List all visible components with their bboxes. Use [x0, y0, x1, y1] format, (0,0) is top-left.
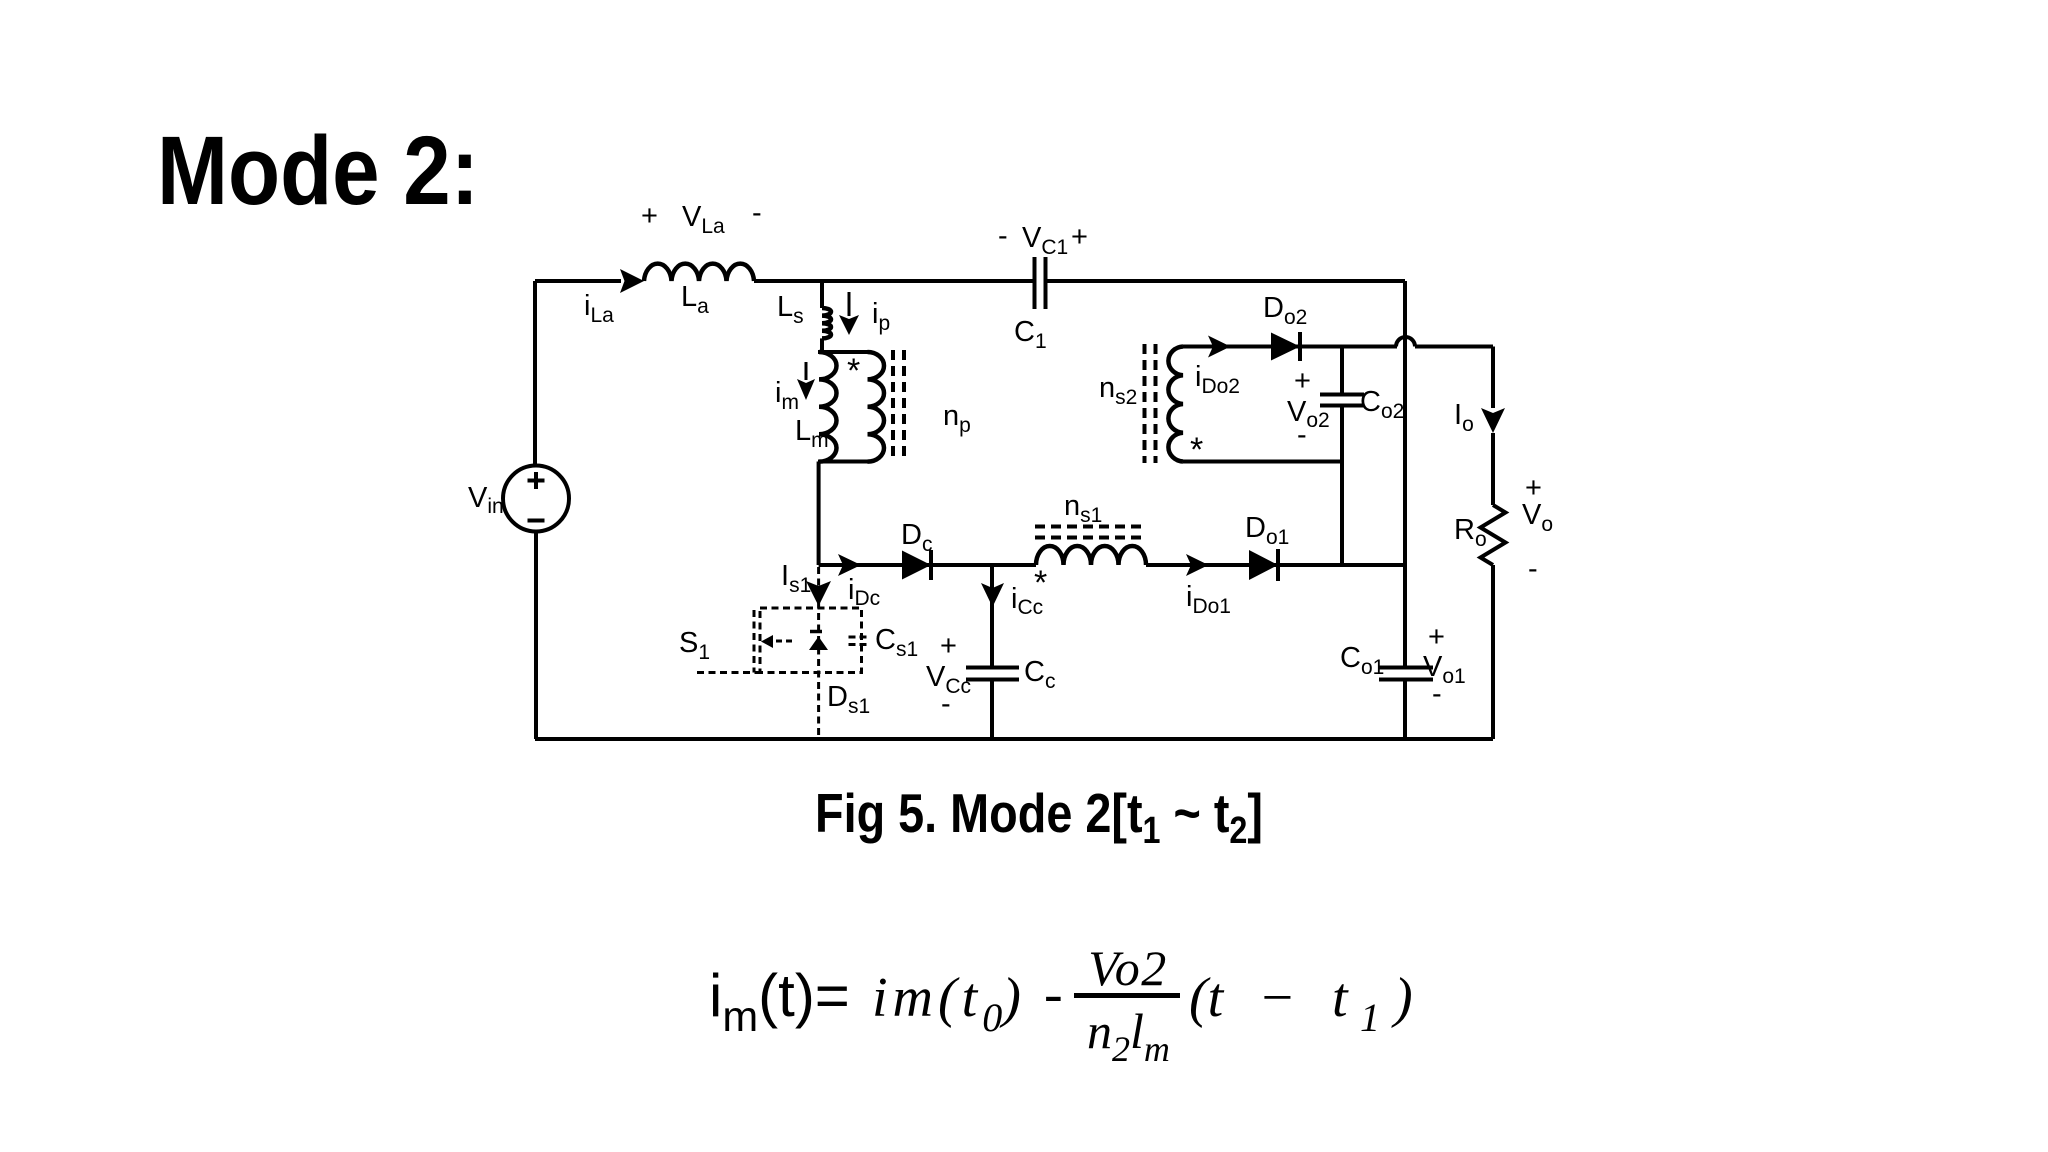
svg-text:iDc: iDc [848, 574, 880, 610]
svg-text:(t−t1): (t−t1) [1189, 967, 1413, 1040]
svg-text:Vo2: Vo2 [1088, 940, 1168, 996]
svg-text:Io: Io [1454, 399, 1474, 436]
svg-text:n2lm: n2lm [1087, 1003, 1170, 1069]
svg-text:Ls: Ls [777, 291, 804, 328]
svg-text:Cs1: Cs1 [875, 624, 918, 661]
svg-text:-: - [998, 220, 1008, 252]
svg-text:Lm: Lm [795, 415, 829, 452]
svg-text:Co1: Co1 [1340, 642, 1384, 679]
svg-text:+: + [1071, 221, 1088, 253]
svg-text:Is1: Is1 [781, 560, 811, 597]
svg-text:La: La [681, 281, 709, 318]
svg-text:-: - [1044, 963, 1063, 1025]
svg-text:-: - [1528, 553, 1538, 585]
svg-text:+: + [940, 630, 957, 662]
svg-text:Dc: Dc [901, 519, 932, 556]
svg-text:Ro: Ro [1454, 514, 1487, 551]
svg-text:Vo1: Vo1 [1423, 651, 1466, 688]
svg-text:+: + [641, 200, 658, 232]
svg-text:+: + [1428, 621, 1445, 653]
svg-text:-: - [1432, 678, 1442, 710]
svg-text:ns2: ns2 [1099, 372, 1137, 409]
svg-text:Fig 5. Mode 2[t1 ~ t2]: Fig 5. Mode 2[t1 ~ t2] [815, 782, 1263, 852]
svg-text:C1: C1 [1014, 316, 1047, 353]
svg-text:-: - [941, 688, 951, 720]
svg-text:iDo2: iDo2 [1195, 361, 1240, 398]
svg-text:Cc: Cc [1024, 656, 1055, 693]
svg-text:iLa: iLa [584, 290, 614, 327]
svg-text:*: * [1190, 431, 1203, 469]
svg-text:-: - [1297, 419, 1307, 451]
svg-text:S1: S1 [679, 627, 710, 664]
svg-text:Do1: Do1 [1245, 512, 1289, 549]
svg-text:iDo1: iDo1 [1186, 581, 1231, 618]
svg-text:ns1: ns1 [1064, 490, 1102, 527]
svg-text:Ds1: Ds1 [827, 681, 870, 718]
svg-text:ip: ip [872, 298, 890, 335]
svg-text:Co2: Co2 [1360, 386, 1404, 423]
svg-text:Mode 2:: Mode 2: [157, 116, 479, 225]
svg-text:+: + [1294, 365, 1311, 397]
svg-text:im(t0): im(t0) [872, 967, 1026, 1040]
svg-text:Vo: Vo [1522, 499, 1553, 536]
svg-text:-: - [752, 197, 762, 229]
svg-text:Vo2: Vo2 [1287, 396, 1330, 432]
svg-text:im(t)=: im(t)= [709, 962, 850, 1041]
svg-text:VLa: VLa [682, 201, 725, 238]
svg-text:im: im [775, 377, 799, 414]
svg-text:VC1: VC1 [1022, 222, 1068, 259]
svg-text:np: np [943, 400, 971, 437]
svg-text:Do2: Do2 [1263, 292, 1307, 329]
svg-text:Vin: Vin [468, 482, 504, 518]
svg-text:*: * [847, 352, 860, 390]
